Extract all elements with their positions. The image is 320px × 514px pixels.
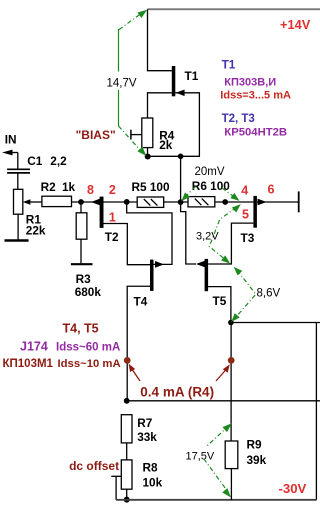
svg-text:T3: T3 bbox=[241, 231, 255, 245]
meas dash 20mV right bbox=[222, 188, 235, 198]
meas dash to rail corner bbox=[119, 14, 141, 30]
wire R1 bottom to ground bbox=[17, 214, 19, 239]
power rail +14V bbox=[148, 8, 320, 10]
meas arrow 17.5V bottom bbox=[222, 488, 231, 497]
svg-text:R9: R9 bbox=[247, 438, 263, 452]
node R8 bottom junction bbox=[124, 497, 130, 503]
node R5-R6 junction bbox=[178, 199, 184, 205]
T2 gate arrow bbox=[91, 199, 100, 206]
meas dash 17.5V lower bbox=[204, 459, 227, 490]
output terminal bar bbox=[298, 191, 300, 212]
R4 trimmer tap terminal bbox=[130, 130, 132, 140]
transistor T2 channel bar bbox=[100, 197, 104, 228]
meas arrow at +14V rail corner bbox=[137, 10, 147, 18]
svg-text:20mV: 20mV bbox=[195, 166, 225, 178]
wire IN to C1 bbox=[17, 153, 19, 169]
R6 internal slashes bbox=[195, 199, 202, 206]
node T2 drain junction bbox=[124, 199, 130, 205]
meas arrow 20mV left bbox=[181, 192, 190, 201]
svg-text:T1: T1 bbox=[222, 58, 236, 72]
svg-text:R2: R2 bbox=[41, 180, 57, 194]
svg-text:2k: 2k bbox=[159, 138, 173, 152]
wire R3 branch bbox=[80, 202, 82, 213]
wire T3 source to T5 drain bbox=[208, 223, 253, 264]
node R7 top junction bbox=[124, 398, 130, 404]
svg-text:C1: C1 bbox=[27, 154, 43, 168]
svg-text:T1: T1 bbox=[185, 69, 199, 83]
svg-text:КР504НТ2В: КР504НТ2В bbox=[224, 127, 287, 139]
wire T2 source to T4 drain bbox=[104, 224, 151, 265]
svg-text:5: 5 bbox=[242, 208, 249, 222]
node T3 gate junction bbox=[222, 199, 228, 205]
resistor R8 body bbox=[121, 460, 132, 489]
svg-text:Idss=3...5 mA: Idss=3...5 mA bbox=[220, 90, 291, 102]
wire T5 source down to lower junction bbox=[208, 287, 231, 323]
wire T1 drain branch from rail bbox=[148, 9, 172, 70]
wire bias node down to R5-R6 junction bbox=[180, 156, 182, 202]
wire R5 to R6 bbox=[164, 201, 188, 203]
wire T1 gate loop to bias node bbox=[148, 93, 200, 157]
meas arrow 20mV right bbox=[230, 193, 239, 201]
node gate-loop junction bbox=[178, 154, 184, 160]
node R3 junction bbox=[78, 199, 84, 205]
resistor R9 body bbox=[225, 441, 238, 469]
wire R5R6 node to T5 gate bbox=[181, 202, 196, 264]
meas arrow 8.6V bottom bbox=[231, 313, 239, 322]
svg-text:8,6V: 8,6V bbox=[257, 287, 281, 299]
svg-text:1k: 1k bbox=[62, 180, 76, 194]
meas arrow 3.2V bottom bbox=[221, 255, 230, 263]
wire C1 to R1 bbox=[17, 173, 19, 189]
wire R9 bottom to rail bbox=[230, 469, 232, 500]
svg-text:10k: 10k bbox=[143, 475, 163, 489]
current arrow to left dot bbox=[132, 369, 141, 382]
svg-text:dc offset: dc offset bbox=[69, 459, 119, 473]
transistor T3 channel bar bbox=[253, 196, 257, 228]
transistor T5 channel bar bbox=[205, 259, 209, 291]
svg-text:2: 2 bbox=[109, 183, 116, 197]
svg-text:J174: J174 bbox=[20, 340, 48, 354]
resistor R6 body bbox=[188, 197, 215, 207]
wire T4 source down to R7 node bbox=[127, 286, 150, 401]
svg-text:14,7V: 14,7V bbox=[107, 78, 137, 90]
R5 internal slashes bbox=[144, 199, 151, 206]
power rail -30V bbox=[116, 499, 317, 501]
svg-text:22k: 22k bbox=[26, 223, 46, 237]
resistor R4 body bbox=[142, 118, 153, 148]
svg-text:33k: 33k bbox=[137, 430, 157, 444]
transistor T1 channel bar bbox=[172, 66, 176, 96]
resistor R3 body bbox=[76, 213, 87, 239]
meas arrow 8.6V top bbox=[234, 267, 243, 276]
node bias junction bbox=[145, 154, 151, 160]
svg-text:"BIAS": "BIAS" bbox=[76, 128, 116, 142]
potentiometer R1 body bbox=[14, 189, 23, 214]
svg-text:1: 1 bbox=[109, 211, 116, 225]
meas dash 20mV left bbox=[185, 187, 196, 198]
input terminal IN arrow bbox=[2, 150, 13, 156]
current arrow to right dot bbox=[216, 369, 227, 381]
wire T1 source to R4 bbox=[148, 93, 172, 118]
wire junction to right edge bbox=[231, 322, 320, 324]
svg-text:2,2: 2,2 bbox=[50, 154, 67, 168]
ground under R1 bbox=[5, 239, 29, 241]
meas dash 17.5V upper bbox=[207, 426, 229, 446]
svg-text:T2: T2 bbox=[105, 230, 119, 244]
meas dash to bias node bbox=[119, 126, 142, 151]
wire R4 bottom to bias node bbox=[147, 148, 149, 157]
transistor T4 channel bar bbox=[150, 260, 154, 291]
svg-text:4: 4 bbox=[241, 184, 248, 198]
svg-text:17,5V: 17,5V bbox=[186, 451, 215, 463]
svg-text:-30V: -30V bbox=[279, 481, 307, 496]
resistor R7 body bbox=[121, 415, 132, 443]
svg-text:0.4 mA (R4): 0.4 mA (R4) bbox=[140, 385, 214, 400]
current dot left branch bbox=[124, 357, 131, 364]
wire R2 to T2 gate bbox=[72, 201, 100, 203]
R8 wiper to bottom rail bbox=[111, 475, 121, 477]
wire R7 node row bbox=[127, 400, 320, 402]
T4 gate arrow bbox=[155, 261, 164, 268]
resistor R5 body bbox=[137, 197, 164, 207]
svg-text:+14V: +14V bbox=[280, 17, 311, 32]
wire R8 bottom bbox=[126, 489, 128, 500]
svg-text:6: 6 bbox=[268, 183, 275, 197]
capacitor C1 plates bbox=[7, 168, 30, 170]
svg-text:T2, T3: T2, T3 bbox=[222, 113, 255, 125]
svg-text:R5 100: R5 100 bbox=[132, 180, 170, 194]
svg-text:Idss~10 mA: Idss~10 mA bbox=[58, 358, 121, 370]
T1 gate arrow bbox=[176, 90, 185, 97]
R1 wiper arrow bbox=[23, 199, 31, 205]
resistor R2 body bbox=[42, 196, 72, 206]
ground under R3 bbox=[71, 263, 93, 265]
svg-text:8: 8 bbox=[87, 183, 94, 197]
wire R7 to R8 bbox=[126, 443, 128, 460]
wire T2 drain to R5 bbox=[104, 201, 138, 203]
wire R3 to ground bbox=[80, 239, 82, 263]
svg-text:3,2V: 3,2V bbox=[196, 230, 219, 242]
meas arrow 3.2V top bbox=[232, 204, 241, 212]
meas dash 3.2V path bbox=[209, 208, 236, 261]
wire R6 to T3 bbox=[215, 201, 254, 203]
svg-text:R8: R8 bbox=[143, 461, 159, 475]
wire T2 drain node to T4 gate bbox=[127, 202, 172, 264]
meas line 14.7V upper bbox=[118, 29, 120, 72]
meas arrow at bias node bbox=[137, 147, 146, 156]
svg-text:КП303В,И: КП303В,И bbox=[224, 77, 276, 89]
meas line 14.7V lower bbox=[118, 90, 120, 126]
T5 gate arrow bbox=[196, 261, 205, 268]
wire R1 wiper to R2 bbox=[30, 201, 42, 203]
svg-text:КП103М1: КП103М1 bbox=[3, 358, 54, 370]
meas dash 8.6V path bbox=[234, 270, 255, 319]
svg-text:R6 100: R6 100 bbox=[192, 179, 230, 193]
svg-text:39k: 39k bbox=[247, 453, 267, 467]
svg-text:T5: T5 bbox=[213, 294, 227, 308]
wire T3 to output terminal bbox=[257, 201, 299, 203]
svg-text:R7: R7 bbox=[137, 416, 153, 430]
svg-text:T4: T4 bbox=[134, 295, 148, 309]
svg-text:R3: R3 bbox=[76, 272, 92, 286]
meas arrow 17.5V top bbox=[222, 423, 231, 432]
node T5 source junction bbox=[228, 320, 234, 326]
svg-text:Idss~60 mA: Idss~60 mA bbox=[56, 342, 120, 354]
svg-text:T4, T5: T4, T5 bbox=[63, 322, 99, 336]
svg-text:IN: IN bbox=[5, 132, 17, 146]
T3 gate arrow bbox=[258, 199, 267, 206]
wire junction down to R9 bbox=[230, 323, 232, 442]
svg-text:680k: 680k bbox=[75, 285, 102, 299]
current dot right branch bbox=[228, 357, 235, 364]
